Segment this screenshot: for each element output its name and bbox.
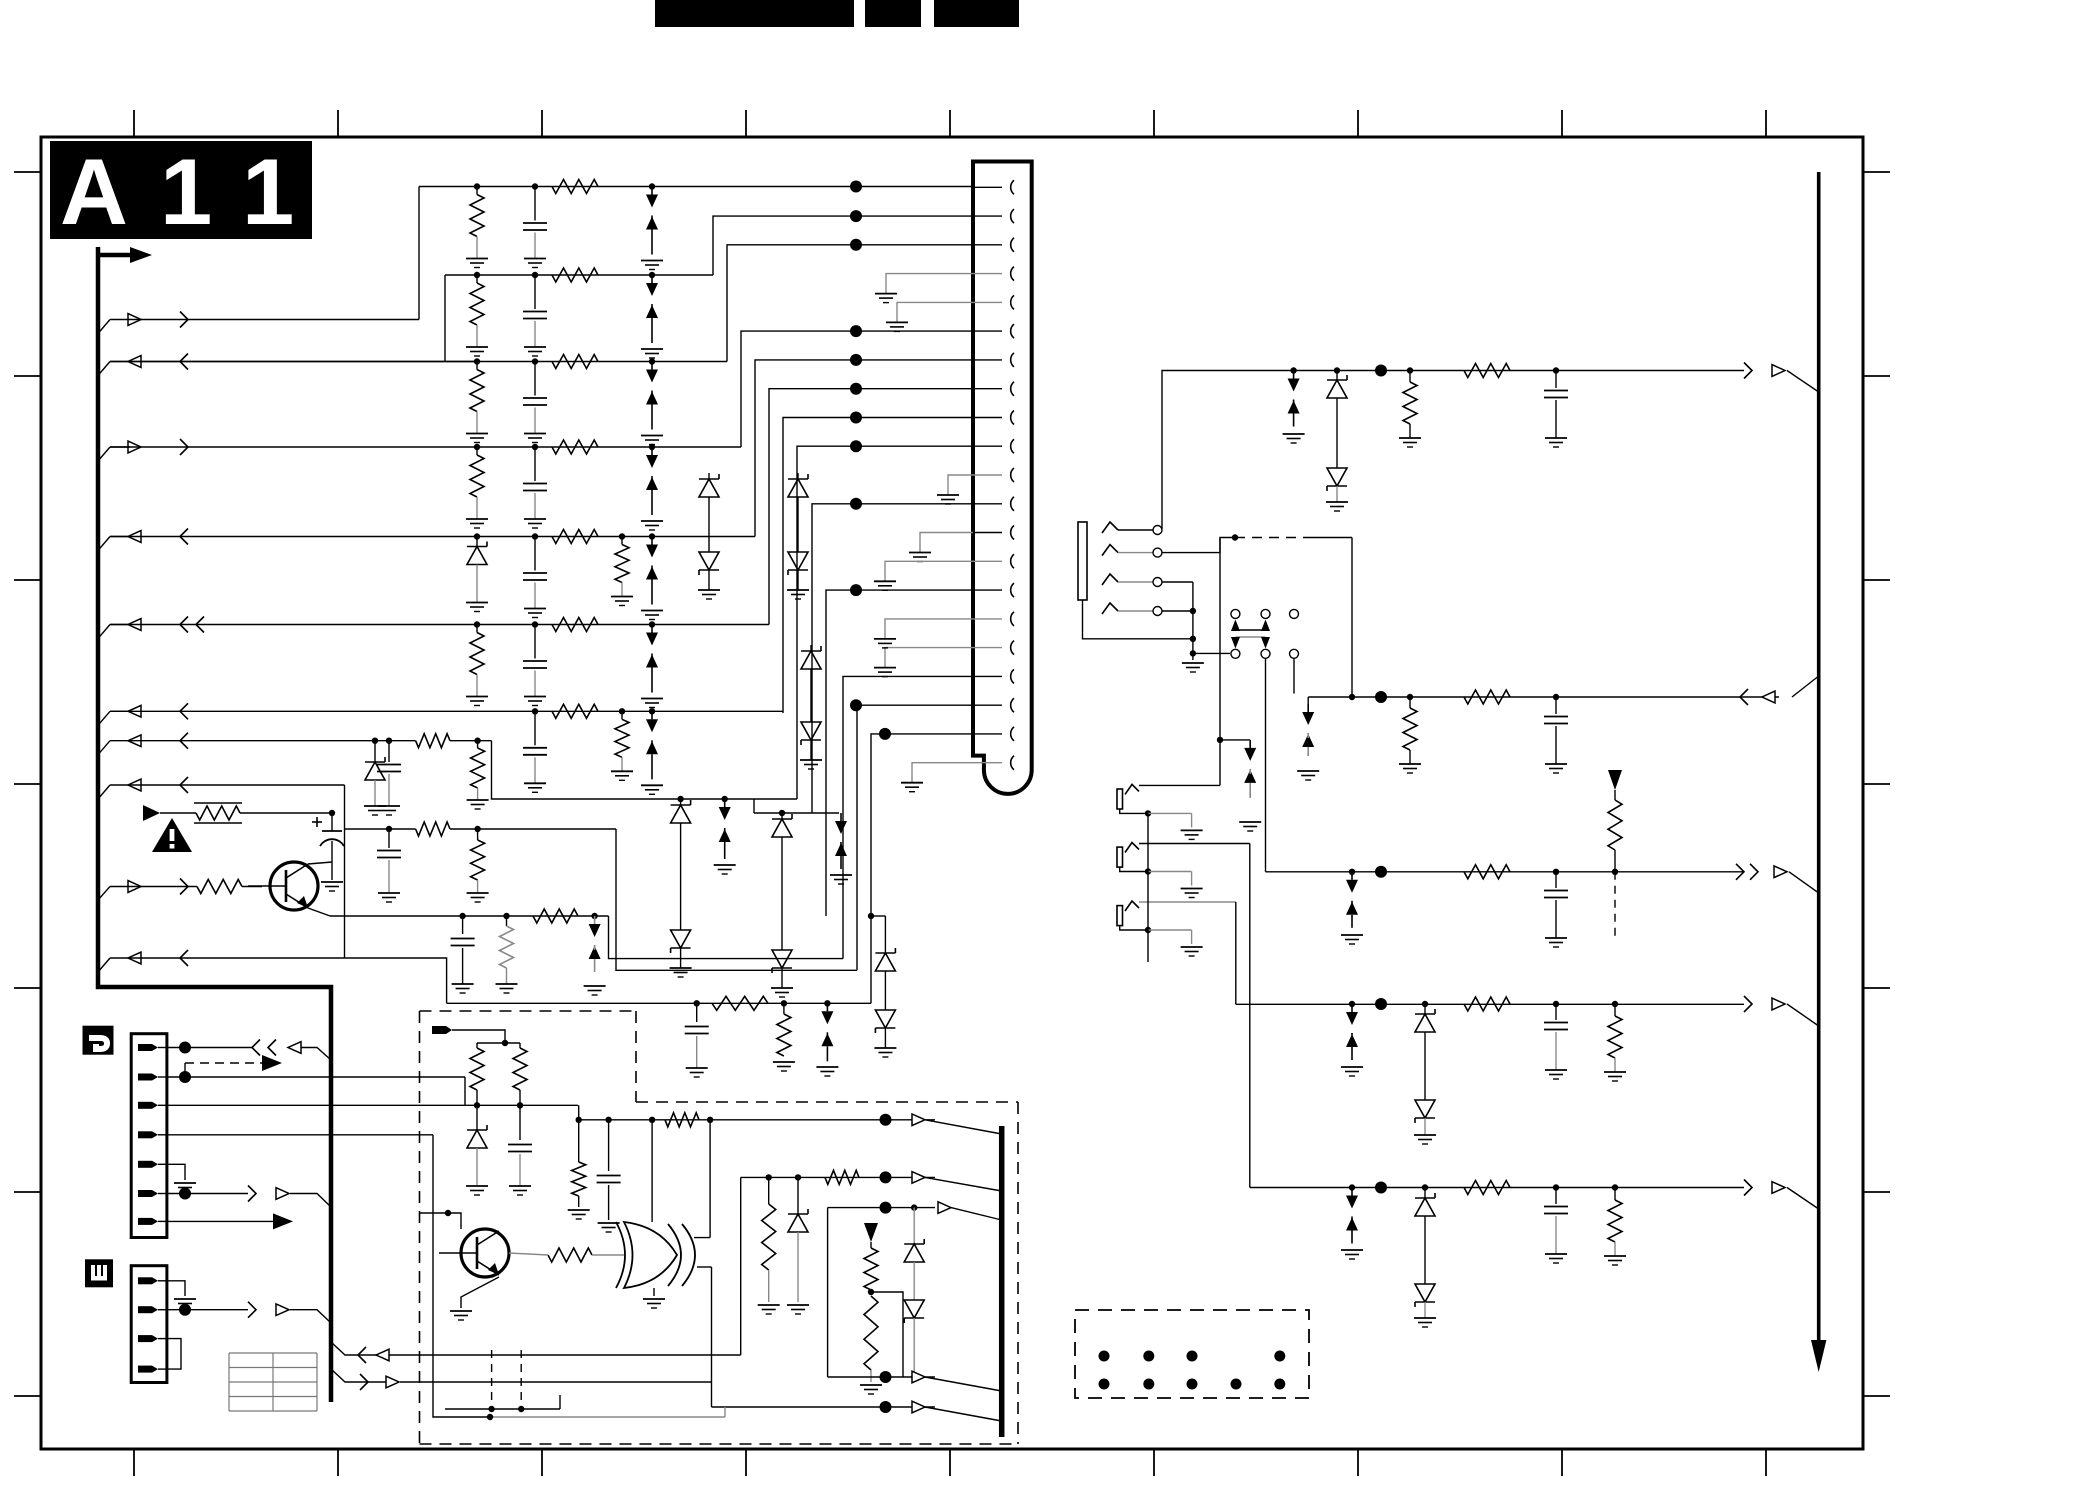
svg-text:A: A: [60, 139, 128, 244]
svg-text:1: 1: [242, 139, 294, 244]
svg-text:1: 1: [160, 139, 212, 244]
